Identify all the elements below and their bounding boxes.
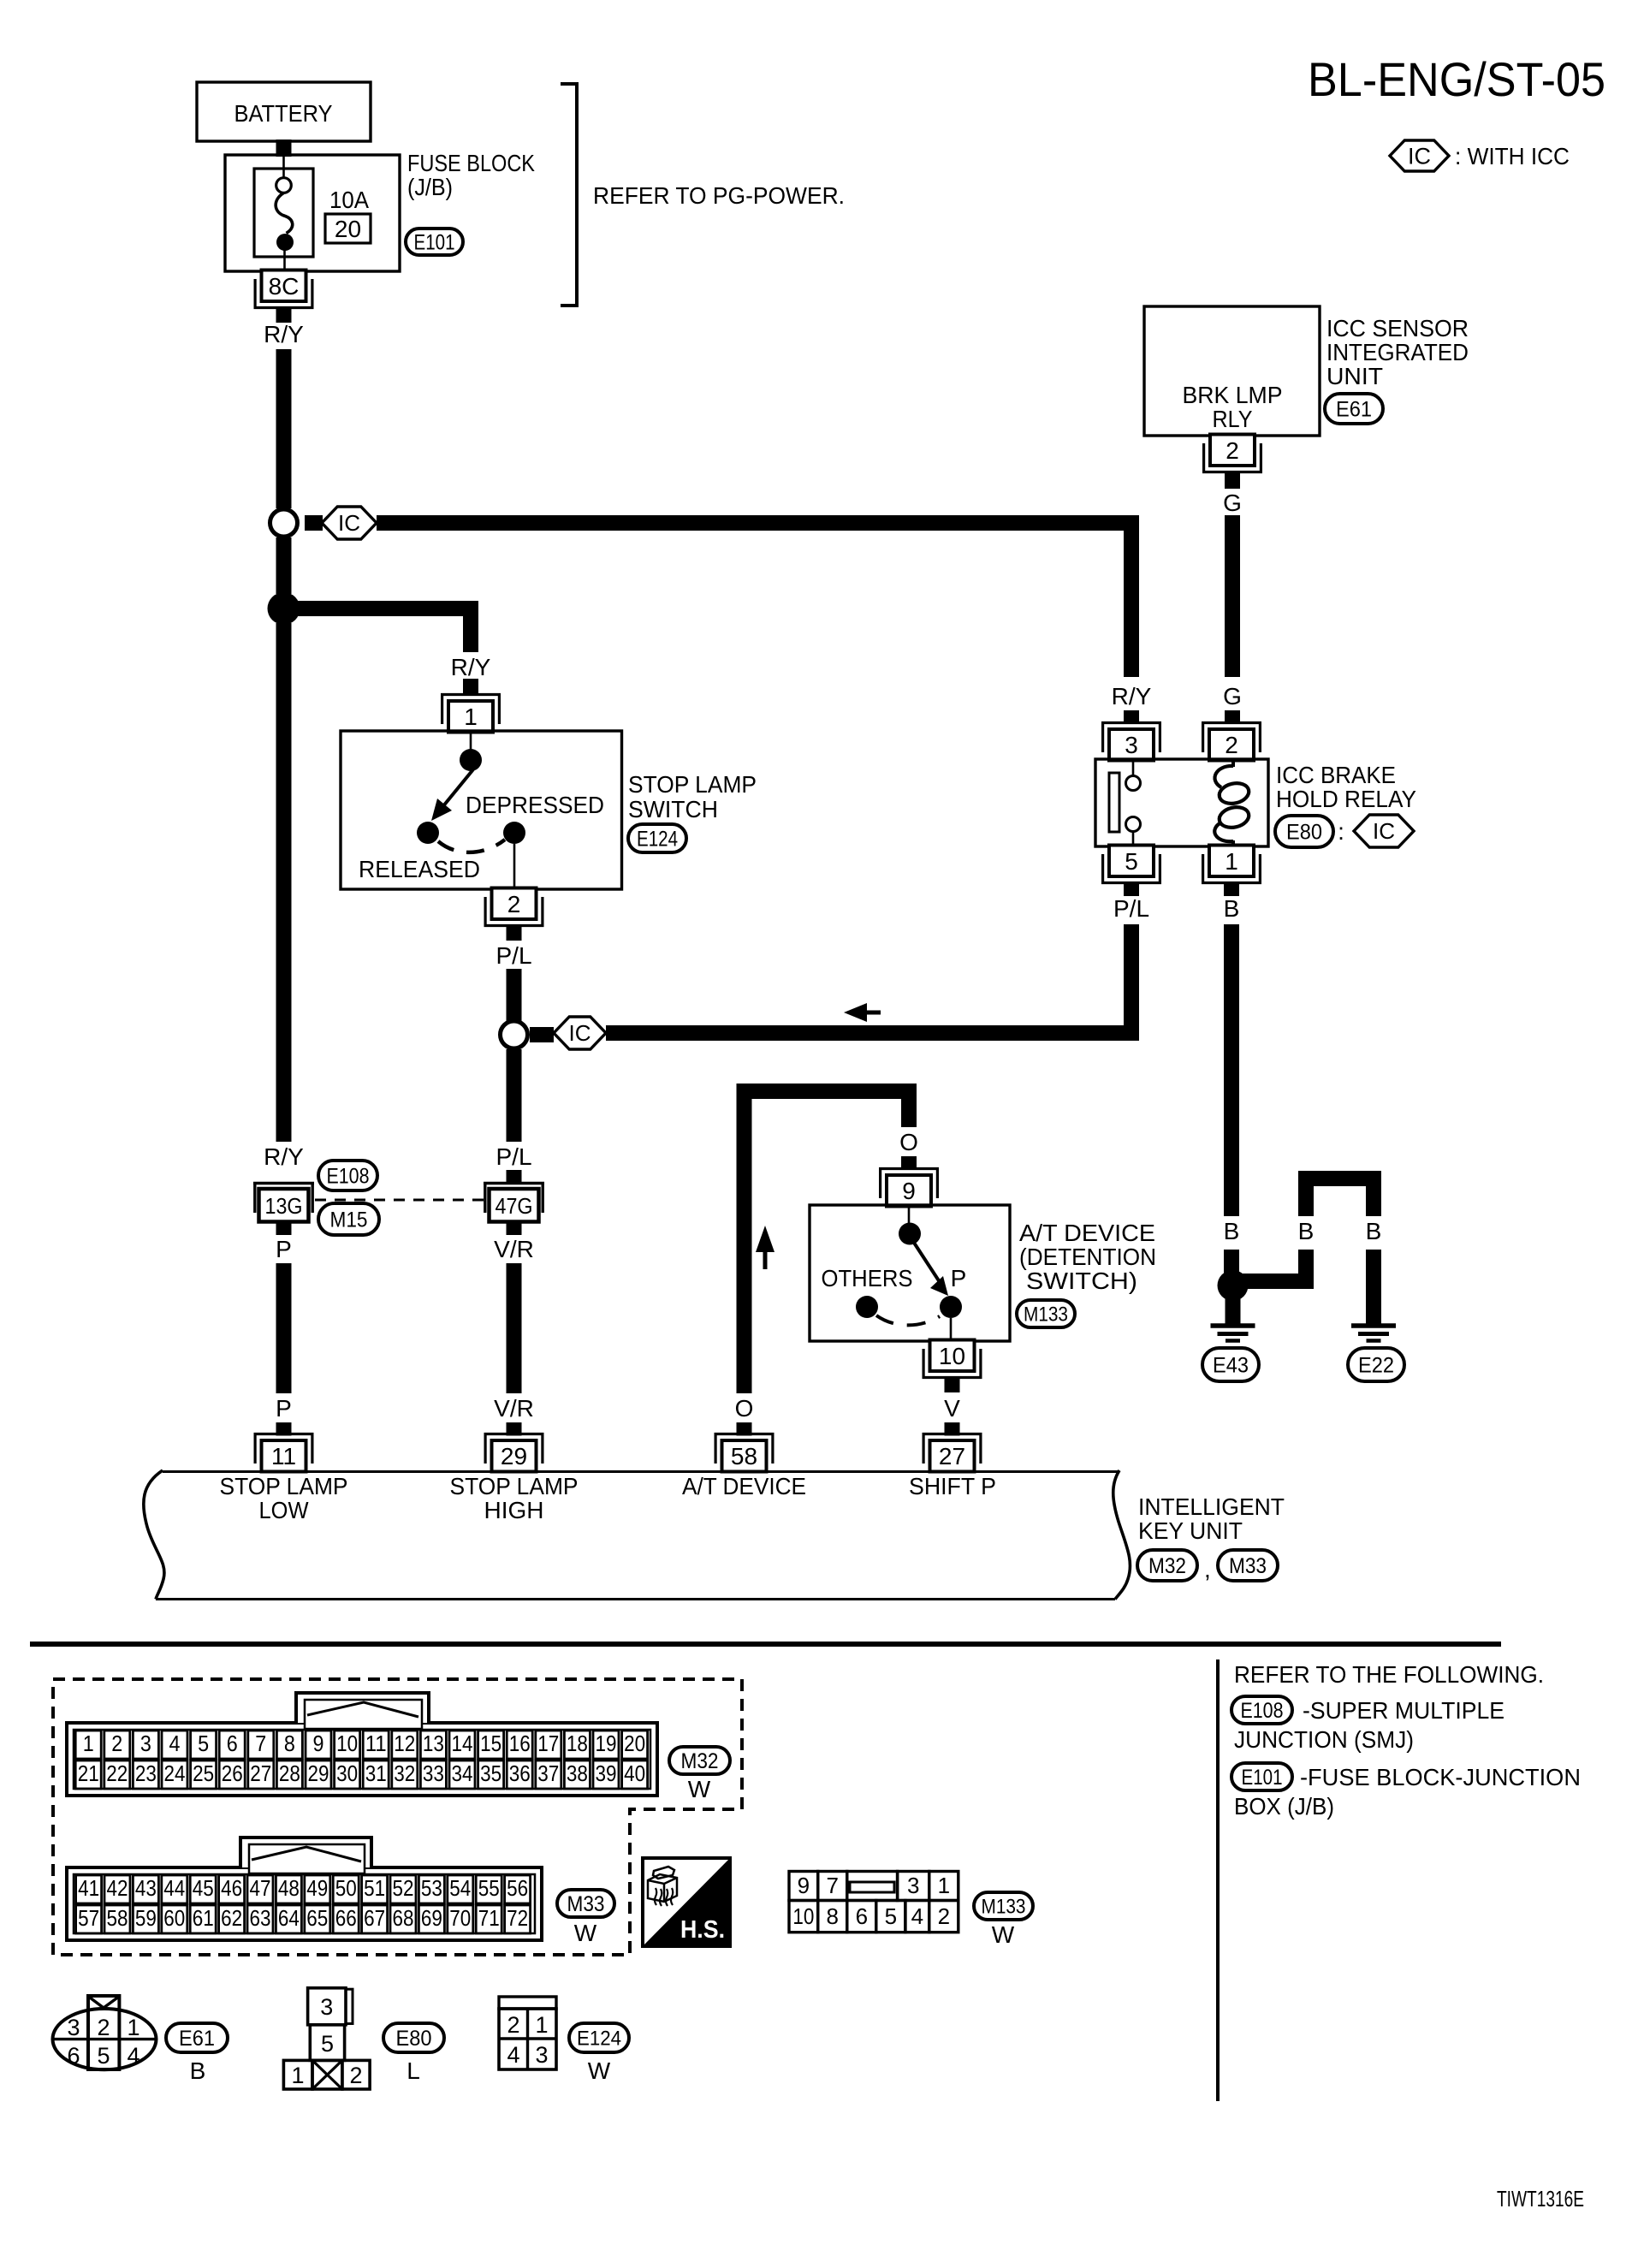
svg-text:INTEGRATED: INTEGRATED [1326, 339, 1469, 365]
svg-text:M33: M33 [1229, 1554, 1267, 1578]
svg-text:17: 17 [537, 1731, 559, 1756]
svg-text:1: 1 [464, 704, 478, 730]
svg-text:47G: 47G [496, 1193, 533, 1219]
svg-text:65: 65 [306, 1905, 328, 1931]
svg-text:A/T DEVICE: A/T DEVICE [682, 1473, 806, 1499]
svg-text:5: 5 [97, 2043, 110, 2069]
svg-text:12: 12 [394, 1731, 415, 1756]
svg-text:1: 1 [83, 1731, 94, 1756]
svg-text:H.S.: H.S. [680, 1916, 725, 1944]
svg-text:2: 2 [111, 1731, 122, 1756]
svg-text:ICC SENSOR: ICC SENSOR [1326, 315, 1469, 341]
svg-text:1: 1 [535, 2012, 548, 2038]
svg-text:REFER TO PG-POWER.: REFER TO PG-POWER. [593, 182, 845, 209]
svg-text:27: 27 [250, 1760, 271, 1786]
svg-text:66: 66 [335, 1905, 357, 1931]
svg-text:: WITH ICC: : WITH ICC [1455, 143, 1570, 169]
svg-text:2: 2 [1226, 437, 1239, 464]
svg-text:59: 59 [135, 1905, 157, 1931]
svg-text:E124: E124 [637, 827, 678, 851]
svg-text:E61: E61 [179, 2027, 215, 2051]
svg-text:BL-ENG/ST-05: BL-ENG/ST-05 [1308, 52, 1605, 106]
svg-text:55: 55 [478, 1875, 500, 1901]
svg-text:34: 34 [452, 1760, 473, 1786]
svg-text:29: 29 [308, 1760, 329, 1786]
svg-text:63: 63 [250, 1905, 271, 1931]
svg-text:26: 26 [222, 1760, 243, 1786]
svg-text:53: 53 [421, 1875, 442, 1901]
svg-text:V/R: V/R [494, 1395, 534, 1422]
svg-text:B: B [1298, 1218, 1315, 1244]
svg-text:4: 4 [507, 2042, 519, 2068]
svg-text:RELEASED: RELEASED [359, 856, 480, 882]
svg-text:6: 6 [67, 2043, 80, 2069]
svg-text:25: 25 [193, 1760, 214, 1786]
svg-text:4: 4 [127, 2043, 139, 2069]
svg-text:A/T DEVICE: A/T DEVICE [1019, 1220, 1155, 1246]
svg-text:30: 30 [336, 1760, 358, 1786]
svg-text:2: 2 [97, 2015, 110, 2040]
svg-text:BRK LMP: BRK LMP [1183, 382, 1283, 408]
svg-text:6: 6 [227, 1731, 238, 1756]
svg-text:(J/B): (J/B) [407, 174, 453, 200]
svg-text:M133: M133 [982, 1895, 1026, 1918]
svg-text:3: 3 [1125, 732, 1138, 758]
svg-text:2: 2 [507, 2012, 519, 2038]
svg-text:W: W [992, 1921, 1015, 1948]
svg-text:W: W [688, 1776, 711, 1802]
svg-text:HOLD RELAY: HOLD RELAY [1276, 786, 1416, 812]
svg-text:BOX (J/B): BOX (J/B) [1234, 1793, 1334, 1820]
svg-text:35: 35 [480, 1760, 501, 1786]
svg-text:10A: 10A [329, 187, 369, 213]
svg-text:8: 8 [827, 1903, 839, 1929]
svg-text:P/L: P/L [496, 1143, 531, 1170]
svg-text:10: 10 [336, 1731, 358, 1756]
svg-text:R/Y: R/Y [1112, 683, 1152, 709]
svg-text:BATTERY: BATTERY [234, 100, 333, 127]
svg-text:21: 21 [78, 1760, 99, 1786]
svg-text:1: 1 [291, 2063, 304, 2088]
svg-text:L: L [407, 2057, 420, 2084]
svg-text:43: 43 [135, 1875, 157, 1901]
svg-text:E101: E101 [414, 230, 455, 254]
svg-text:E108: E108 [327, 1164, 370, 1188]
svg-text:5: 5 [1125, 848, 1138, 875]
svg-text:58: 58 [107, 1905, 128, 1931]
svg-text:22: 22 [106, 1760, 128, 1786]
svg-text:E101: E101 [1242, 1766, 1283, 1790]
svg-text:P: P [951, 1265, 967, 1291]
svg-text:11: 11 [365, 1731, 387, 1756]
svg-text:48: 48 [278, 1875, 300, 1901]
svg-text:15: 15 [480, 1731, 501, 1756]
svg-text:IC: IC [338, 510, 360, 536]
svg-text:33: 33 [423, 1760, 444, 1786]
svg-text:50: 50 [335, 1875, 357, 1901]
svg-text:E124: E124 [577, 2027, 621, 2050]
svg-text:IC: IC [1373, 818, 1395, 844]
svg-text:18: 18 [567, 1731, 588, 1756]
svg-text:16: 16 [509, 1731, 531, 1756]
svg-text:M133: M133 [1024, 1303, 1068, 1326]
svg-text:72: 72 [507, 1905, 528, 1931]
svg-text:40: 40 [624, 1760, 645, 1786]
svg-text:19: 19 [596, 1731, 617, 1756]
svg-text:8: 8 [284, 1731, 295, 1756]
svg-text:9: 9 [313, 1731, 324, 1756]
svg-text:O: O [899, 1129, 918, 1155]
svg-text:SWITCH: SWITCH [628, 796, 718, 822]
svg-text:HIGH: HIGH [484, 1497, 544, 1523]
svg-text:41: 41 [78, 1875, 99, 1901]
svg-text:5: 5 [885, 1903, 897, 1929]
svg-text:W: W [574, 1920, 597, 1946]
svg-text:RLY: RLY [1213, 406, 1253, 432]
svg-text:M32: M32 [681, 1749, 719, 1773]
svg-text:M32: M32 [1148, 1554, 1186, 1578]
svg-text:3: 3 [535, 2042, 548, 2068]
svg-text:W: W [588, 2057, 611, 2084]
svg-text:37: 37 [537, 1760, 559, 1786]
svg-text:B: B [190, 2057, 206, 2084]
svg-text::: : [1338, 818, 1344, 845]
svg-text:STOP LAMP: STOP LAMP [450, 1473, 579, 1499]
svg-text:49: 49 [306, 1875, 328, 1901]
svg-text:24: 24 [164, 1760, 186, 1786]
svg-text:27: 27 [939, 1443, 965, 1469]
svg-text:4: 4 [169, 1731, 181, 1756]
svg-text:4: 4 [911, 1903, 923, 1929]
svg-text:B: B [1366, 1218, 1382, 1244]
svg-text:V: V [944, 1395, 960, 1422]
svg-text:9: 9 [798, 1873, 810, 1898]
svg-text:STOP LAMP: STOP LAMP [220, 1473, 348, 1499]
svg-text:14: 14 [452, 1731, 473, 1756]
svg-text:O: O [735, 1395, 754, 1422]
svg-text:46: 46 [221, 1875, 242, 1901]
svg-text:SWITCH): SWITCH) [1026, 1268, 1137, 1294]
svg-text:P/L: P/L [1113, 895, 1149, 922]
svg-text:1: 1 [1225, 848, 1238, 875]
svg-text:1: 1 [127, 2015, 139, 2040]
svg-text:20: 20 [335, 216, 361, 242]
svg-text:SHIFT P: SHIFT P [909, 1473, 996, 1499]
svg-text:E80: E80 [1286, 820, 1322, 844]
svg-text:,: , [1204, 1556, 1211, 1582]
svg-text:64: 64 [278, 1905, 300, 1931]
svg-text:69: 69 [421, 1905, 442, 1931]
svg-text:P: P [276, 1236, 292, 1262]
svg-text:-SUPER MULTIPLE: -SUPER MULTIPLE [1303, 1697, 1504, 1724]
svg-text:M33: M33 [567, 1892, 605, 1916]
svg-text:STOP LAMP: STOP LAMP [628, 771, 757, 798]
svg-text:68: 68 [393, 1905, 414, 1931]
svg-text:13: 13 [423, 1731, 444, 1756]
svg-text:3: 3 [67, 2015, 80, 2040]
svg-text:44: 44 [163, 1875, 185, 1901]
svg-text:G: G [1223, 683, 1242, 709]
svg-text:IC: IC [1408, 143, 1431, 169]
svg-text:57: 57 [78, 1905, 99, 1931]
svg-text:2: 2 [507, 891, 521, 917]
svg-text:(DETENTION: (DETENTION [1019, 1244, 1156, 1270]
svg-text:7: 7 [827, 1873, 839, 1898]
svg-text:E43: E43 [1213, 1353, 1249, 1377]
svg-text:ICC BRAKE: ICC BRAKE [1276, 762, 1396, 788]
svg-text:INTELLIGENT: INTELLIGENT [1138, 1493, 1285, 1520]
svg-text:R/Y: R/Y [451, 654, 491, 680]
svg-text:E80: E80 [396, 2027, 432, 2051]
svg-text:2: 2 [938, 1903, 950, 1929]
svg-text:10: 10 [792, 1903, 814, 1929]
svg-text:9: 9 [902, 1178, 916, 1204]
svg-text:E61: E61 [1336, 397, 1372, 421]
svg-text:1: 1 [938, 1873, 950, 1898]
svg-text:LOW: LOW [259, 1497, 310, 1523]
svg-text:67: 67 [364, 1905, 385, 1931]
svg-text:56: 56 [507, 1875, 528, 1901]
svg-text:28: 28 [279, 1760, 300, 1786]
svg-text:13G: 13G [265, 1193, 303, 1219]
svg-text:10: 10 [939, 1343, 965, 1369]
svg-text:3: 3 [907, 1873, 919, 1898]
svg-text:3: 3 [140, 1731, 151, 1756]
svg-text:71: 71 [478, 1905, 500, 1931]
svg-text:11: 11 [271, 1443, 296, 1469]
svg-text:P/L: P/L [496, 942, 531, 969]
svg-text:6: 6 [856, 1903, 868, 1929]
svg-text:E108: E108 [1241, 1699, 1284, 1723]
svg-text:39: 39 [596, 1760, 617, 1786]
svg-text:G: G [1223, 490, 1242, 516]
svg-text:OTHERS: OTHERS [822, 1265, 913, 1291]
svg-text:KEY UNIT: KEY UNIT [1138, 1517, 1243, 1544]
svg-text:IC: IC [569, 1020, 591, 1046]
svg-text:52: 52 [393, 1875, 414, 1901]
svg-text:-FUSE BLOCK-JUNCTION: -FUSE BLOCK-JUNCTION [1300, 1764, 1581, 1790]
svg-text:FUSE BLOCK: FUSE BLOCK [407, 150, 535, 176]
svg-text:54: 54 [449, 1875, 471, 1901]
svg-text:38: 38 [567, 1760, 588, 1786]
svg-text:58: 58 [731, 1443, 757, 1469]
svg-text:M15: M15 [330, 1208, 368, 1232]
svg-text:5: 5 [321, 2031, 334, 2057]
svg-text:2: 2 [349, 2063, 362, 2088]
svg-text:V/R: V/R [494, 1236, 534, 1262]
svg-text:2: 2 [1225, 732, 1238, 758]
svg-text:3: 3 [320, 1994, 333, 2020]
svg-text:45: 45 [193, 1875, 214, 1901]
svg-text:8C: 8C [269, 273, 300, 300]
svg-text:R/Y: R/Y [264, 1143, 304, 1170]
svg-text:51: 51 [364, 1875, 385, 1901]
svg-text:DEPRESSED: DEPRESSED [466, 792, 604, 818]
svg-text:32: 32 [394, 1760, 415, 1786]
svg-text:47: 47 [250, 1875, 271, 1901]
svg-text:TIWT1316E: TIWT1316E [1497, 2186, 1584, 2212]
svg-text:JUNCTION (SMJ): JUNCTION (SMJ) [1234, 1726, 1414, 1753]
svg-text:23: 23 [135, 1760, 157, 1786]
svg-text:7: 7 [255, 1731, 266, 1756]
svg-text:REFER TO THE FOLLOWING.: REFER TO THE FOLLOWING. [1234, 1661, 1544, 1688]
svg-text:UNIT: UNIT [1326, 363, 1383, 389]
svg-text:20: 20 [624, 1731, 645, 1756]
svg-text:B: B [1224, 1218, 1240, 1244]
svg-text:R/Y: R/Y [264, 321, 304, 347]
svg-text:42: 42 [107, 1875, 128, 1901]
svg-text:P: P [276, 1395, 292, 1422]
svg-text:62: 62 [221, 1905, 242, 1931]
svg-text:70: 70 [449, 1905, 471, 1931]
svg-text:31: 31 [365, 1760, 387, 1786]
svg-text:36: 36 [509, 1760, 531, 1786]
svg-text:E22: E22 [1358, 1353, 1394, 1377]
svg-text:60: 60 [163, 1905, 185, 1931]
svg-text:29: 29 [501, 1443, 527, 1469]
svg-text:B: B [1224, 895, 1240, 922]
svg-text:61: 61 [193, 1905, 214, 1931]
svg-text:5: 5 [198, 1731, 209, 1756]
